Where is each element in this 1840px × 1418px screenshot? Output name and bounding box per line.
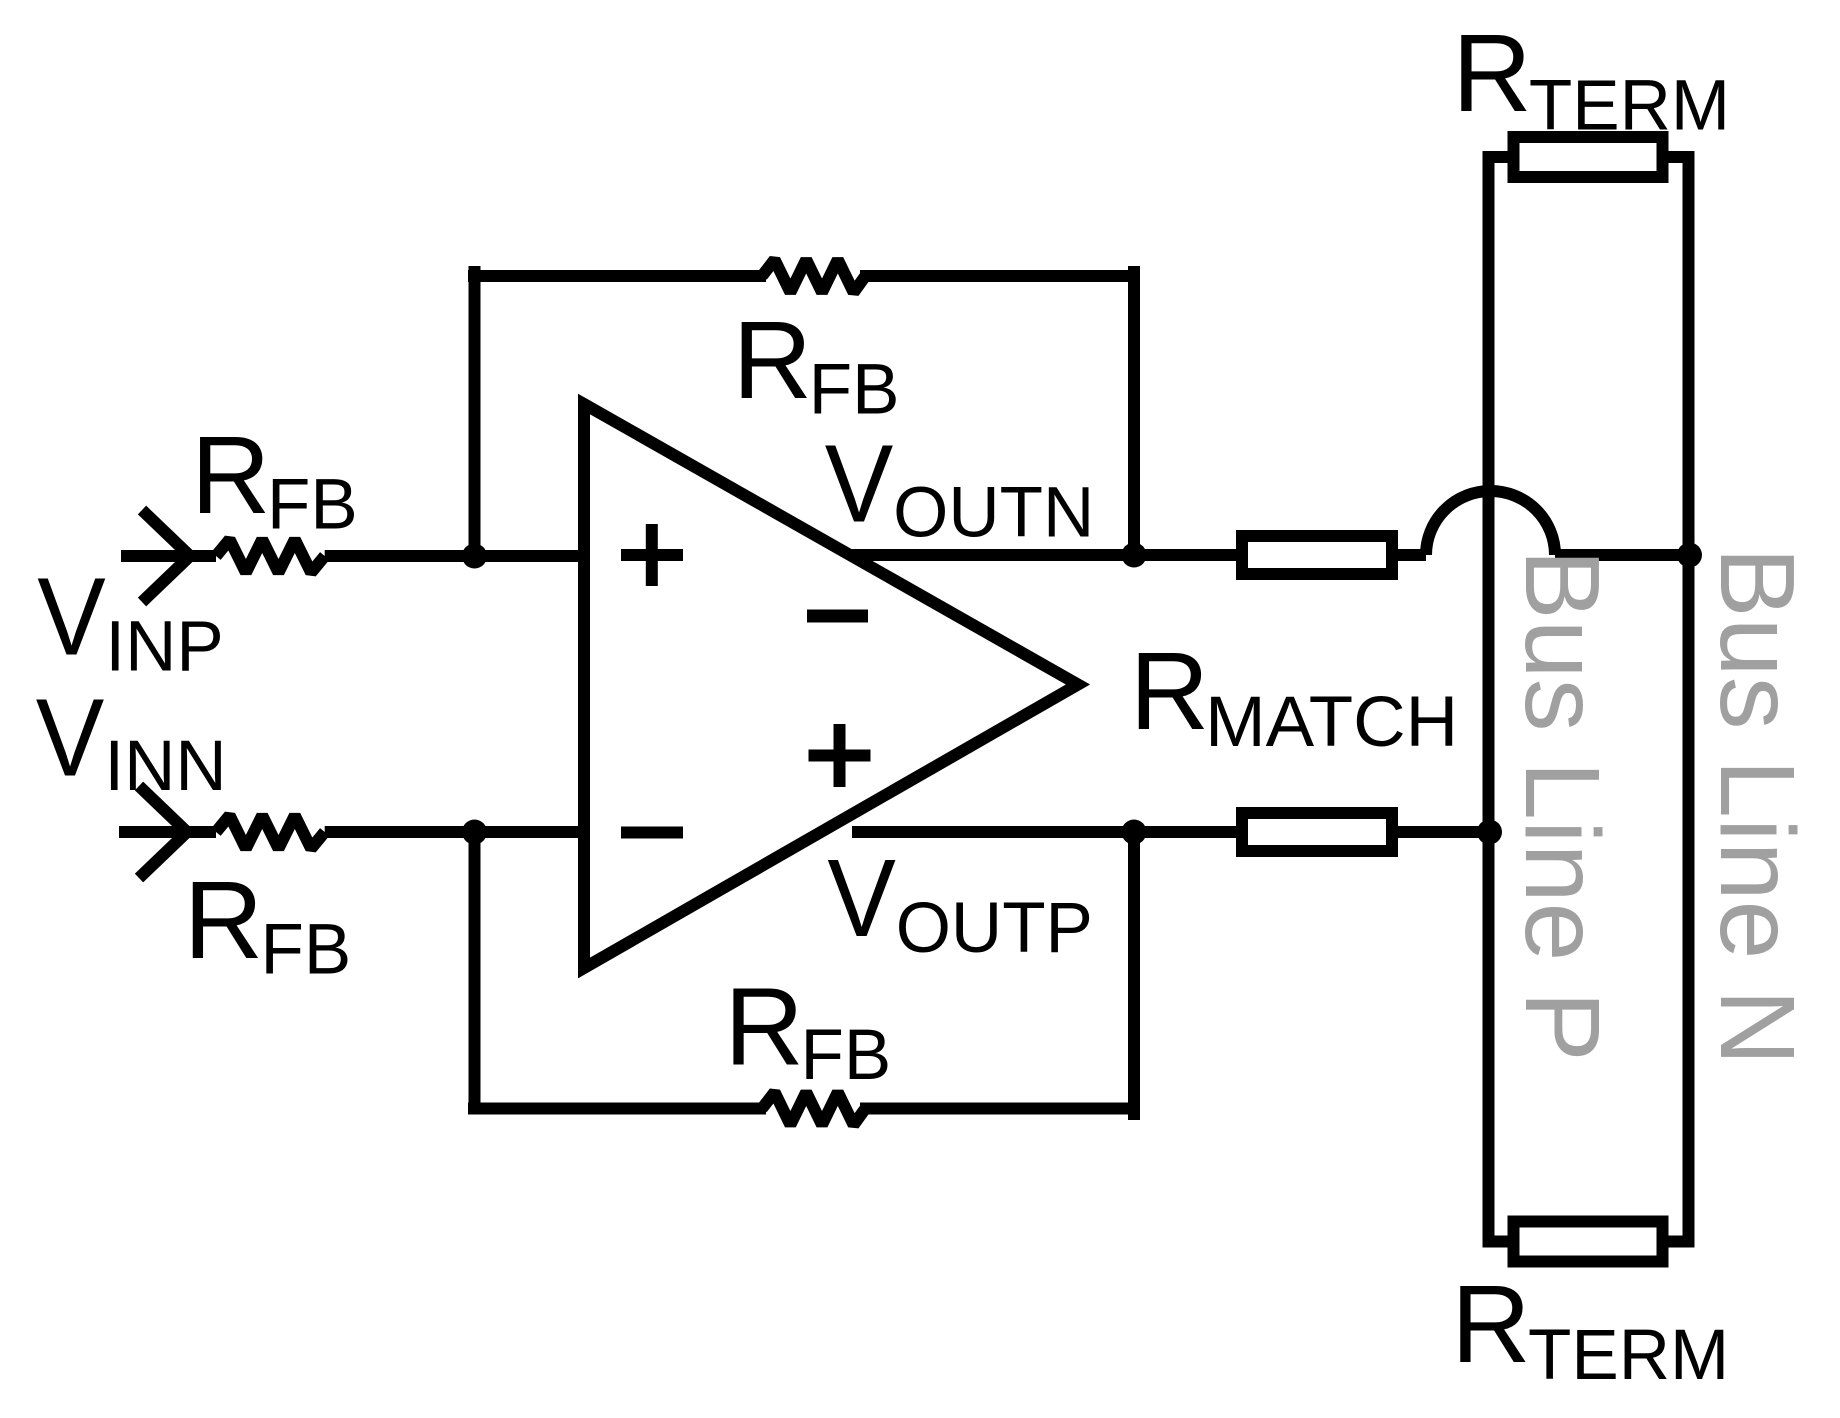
svg-text:R: R bbox=[191, 414, 270, 537]
resistor RFB (top feedback) bbox=[762, 260, 865, 293]
svg-text:MATCH: MATCH bbox=[1205, 683, 1458, 762]
junction node: VINP / feedback bbox=[462, 544, 487, 569]
junction node: VOUTP / feedback bbox=[1122, 820, 1147, 845]
wire feedback top: vertical right bbox=[1128, 266, 1140, 555]
svg-text:Bus Line P: Bus Line P bbox=[1503, 549, 1621, 1062]
svg-text:TERM: TERM bbox=[1528, 1316, 1729, 1395]
op-amp U1 (fully differential amplifier triangle) bbox=[584, 404, 1078, 968]
svg-text:INN: INN bbox=[104, 727, 226, 806]
svg-text:FB: FB bbox=[809, 351, 900, 430]
svg-text:OUTP: OUTP bbox=[896, 889, 1093, 968]
op-amp + output marker (lower) bbox=[809, 724, 871, 787]
wire VINP to op-amp + input bbox=[325, 550, 584, 562]
resistor RMATCH (bottom, box symbol) bbox=[1242, 813, 1392, 851]
svg-text:V: V bbox=[37, 556, 106, 679]
resistor RMATCH (top, box symbol) bbox=[1242, 536, 1392, 574]
svg-text:R: R bbox=[184, 859, 263, 982]
svg-text:OUTN: OUTN bbox=[893, 474, 1094, 553]
wire feedback bottom: horizontal left bbox=[468, 1103, 766, 1115]
svg-text:INP: INP bbox=[105, 608, 223, 687]
svg-text:FB: FB bbox=[261, 911, 352, 990]
wire VINN to op-amp - input bbox=[325, 826, 584, 838]
junction node: VOUTN on Bus Line N bbox=[1677, 543, 1702, 568]
wire feedback top: horizontal right bbox=[860, 270, 1140, 282]
resistor RFB (series input, VINP) bbox=[216, 540, 325, 573]
wire feedback bottom: horizontal right bbox=[860, 1103, 1140, 1115]
svg-text:FB: FB bbox=[801, 1016, 892, 1095]
wire RMATCH to Bus Line P bbox=[1398, 826, 1489, 838]
Bus Line N (vertical bus wire) bbox=[1665, 157, 1689, 1242]
svg-text:V: V bbox=[36, 677, 105, 800]
wire hop over Bus Line P bbox=[1426, 491, 1555, 555]
Bus Line P (vertical bus wire) bbox=[1489, 157, 1513, 1242]
op-amp + input marker (top) bbox=[621, 524, 683, 586]
junction node: VOUTN / feedback bbox=[1122, 543, 1147, 568]
svg-text:TERM: TERM bbox=[1529, 67, 1730, 146]
wire feedback top: horizontal left bbox=[468, 270, 766, 282]
svg-text:R: R bbox=[733, 299, 812, 422]
svg-text:R: R bbox=[1451, 1263, 1530, 1386]
svg-text:V: V bbox=[827, 837, 896, 960]
node VINP input arrow bbox=[121, 510, 216, 602]
wire VOUTP to RMATCH bbox=[1134, 826, 1241, 838]
node VINN input arrow bbox=[119, 786, 216, 878]
wire hop to Bus Line N bbox=[1555, 549, 1689, 561]
svg-text:R: R bbox=[1452, 12, 1531, 135]
svg-text:R: R bbox=[1130, 630, 1209, 753]
resistor RTERM (bottom, box symbol) bbox=[1514, 1222, 1663, 1262]
wire VOUTP from op-amp output bbox=[852, 826, 1134, 838]
wire feedback bottom: vertical left bbox=[469, 832, 481, 1114]
wire feedback top: vertical left bbox=[469, 266, 481, 556]
wire VOUTN from op-amp output bbox=[852, 549, 1134, 561]
resistor RTERM (top, box symbol) bbox=[1514, 137, 1663, 177]
junction node: VOUTP on Bus Line P bbox=[1477, 820, 1502, 845]
svg-text:V: V bbox=[825, 422, 894, 545]
op-amp - output marker (upper) bbox=[807, 610, 868, 623]
op-amp - input marker (bottom) bbox=[621, 827, 683, 839]
svg-text:Bus Line N: Bus Line N bbox=[1698, 547, 1816, 1066]
resistor RFB (bottom feedback) bbox=[762, 1092, 865, 1125]
resistor RFB (series input, VINN) bbox=[216, 816, 325, 849]
wire RMATCH to hop bbox=[1398, 549, 1426, 561]
wire VOUTN to RMATCH bbox=[1134, 549, 1241, 561]
junction node: VINN / feedback bbox=[462, 820, 487, 845]
svg-text:FB: FB bbox=[267, 466, 358, 545]
svg-text:R: R bbox=[724, 966, 803, 1089]
wire feedback bottom: vertical right bbox=[1128, 832, 1140, 1120]
